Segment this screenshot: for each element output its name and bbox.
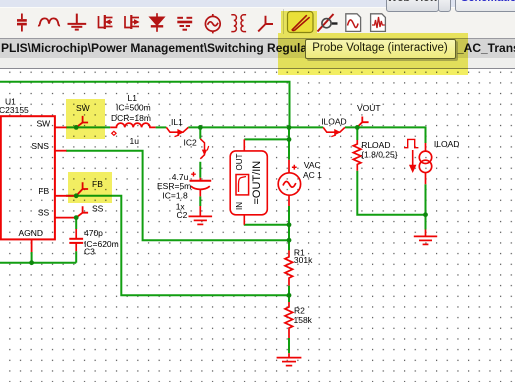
wire C3 to AGND rail [75,251,77,263]
yellow marker highlight B (tooltip area) [278,33,468,75]
resistor RLOAD [353,140,361,171]
U1 pin SNS stub [55,150,67,152]
toolbar inductor icon [40,18,60,25]
svg-text:IC2: IC2 [184,137,198,147]
svg-text:IN: IN [235,202,244,210]
wire R2 bottom lead [288,338,290,353]
node SS junction [74,215,79,220]
wire IC2 to C2 [199,162,201,178]
node OUT-bottom [287,222,292,227]
resistor R2 [285,302,293,338]
svg-text:IC=1.8: IC=1.8 [162,190,188,200]
wire SS to C3 [75,218,77,229]
node FB divider [287,293,292,298]
svg-text:1u: 1u [130,136,140,146]
current source ILOAD [404,139,432,184]
path bar [0,38,515,59]
svg-text:AC 1: AC 1 [303,170,322,180]
svg-text:SW: SW [36,119,50,129]
svg-text:301k: 301k [294,255,313,265]
wire OUT block top [244,138,289,140]
wire IL1 to ILOAD probe [188,126,323,128]
toolbar probe icon [258,16,273,32]
toolbar pmos icon [125,15,139,29]
svg-text:VOUT: VOUT [357,103,381,113]
wire SW node segment [66,126,110,128]
node SNS rail [287,238,292,243]
current probe ILOAD [323,127,345,136]
wire L1 to IL1 [156,126,167,128]
svg-text:=OUT/IN: =OUT/IN [251,161,263,205]
wire R1 bottom lead [288,286,290,296]
wire RLOAD to bottom rail [357,171,425,215]
node load bottom [423,212,428,217]
toolbar coupled inductor icon [231,15,246,32]
wire C2 to ground [199,196,201,206]
voltage source VAC [278,160,300,206]
toolbar nmos icon [99,15,113,29]
ground (ILOAD) [414,230,437,245]
svg-text:{1.8/0.25}: {1.8/0.25} [361,150,398,160]
wire OUT block bottom [244,224,289,226]
node AGND junction [29,260,34,265]
capacitor C3 [69,229,83,251]
yellow marker highlight A (toolbar button) [281,11,318,33]
U1 pin FB stub [55,195,76,197]
op-amp U1 box [1,116,55,239]
probe FB [76,182,88,195]
wire AGND rail [0,262,76,264]
svg-text:C2: C2 [177,210,188,220]
top window strip [0,0,515,7]
wire FB net [66,196,289,295]
capacitor C2 (polarized) [190,172,212,197]
svg-text:SS: SS [38,208,50,218]
probe-disabled icon [318,14,338,32]
svg-text:FB: FB [38,186,49,196]
dropdown segment [438,0,451,12]
U1 pin SS stub [55,217,76,219]
current probe IC2 (vertical) [200,139,208,159]
wire VAC top connection [288,127,290,160]
wire C2 branch upper [199,127,201,138]
web view button [386,0,439,12]
sine document icon [346,14,361,32]
current probe IL1 [166,127,188,136]
wire RLOAD branch [356,127,358,140]
svg-text:470p: 470p [84,228,103,238]
U1 pin AGND stub [31,239,33,252]
probe SW [76,116,88,127]
node SW junction [74,125,79,130]
svg-text:158k: 158k [294,315,313,325]
wire after ILOAD probe to corner, down to ILOAD source [345,127,426,143]
wire ILOAD gnd stub [425,215,427,230]
node C2 tap [198,125,203,130]
svg-text:ILOAD: ILOAD [434,139,460,149]
svg-text:ILOAD: ILOAD [321,117,347,127]
toolbar capacitor icon [17,14,27,32]
toolbar icons svg [0,0,515,37]
node FB junction [74,193,79,198]
toolbar background [0,7,515,38]
schematic text labels [0,93,459,325]
toolbar ground icon [68,14,87,30]
svg-text:IL1: IL1 [171,117,183,127]
schematic button (blue text, cut off) [455,0,515,12]
highlight over probe SW [66,99,105,139]
svg-text:VAC: VAC [304,160,321,170]
highlight over probe FB [68,172,112,203]
wire VIN top rail [0,82,290,127]
node OUT-top [287,137,292,142]
L1 phase dot [112,131,116,135]
wire R1 top lead [288,240,290,250]
wire SNS net [66,151,289,241]
wire ILOAD source bottom [425,184,427,215]
U1 pin SW stub [55,126,67,128]
wire R2 top lead [288,295,290,302]
svg-text:SS: SS [92,204,104,214]
svg-text:IC=500m: IC=500m [116,103,151,113]
svg-text:C3: C3 [84,247,95,257]
resistor R1 [285,250,293,285]
bode probe U2 box [230,139,267,224]
toolbar ac source icon [205,14,220,33]
toolbar zener/dashes icon [177,18,192,30]
node VOUT junction [355,125,360,130]
svg-text:C23155: C23155 [0,105,29,115]
svg-text:AGND: AGND [19,228,44,238]
svg-text:OUT: OUT [235,154,244,171]
probe VOUT [358,117,369,127]
node VIN drop [287,125,292,130]
spectrum document icon [371,14,386,32]
toolbar diode icon [150,13,163,32]
ground (C2) [189,206,213,224]
tooltip [305,39,456,59]
highlighted probe-voltage button [288,12,314,33]
wire VAC bottom to SNS rail [288,206,290,240]
ground (R2) [277,353,302,365]
wire AGND pin lower [31,252,33,263]
svg-text:SNS: SNS [31,141,49,151]
inductor L1 [110,123,155,127]
toolbar separator [283,9,285,34]
svg-text:DCR=18m: DCR=18m [111,113,151,123]
probe SS [76,206,88,217]
